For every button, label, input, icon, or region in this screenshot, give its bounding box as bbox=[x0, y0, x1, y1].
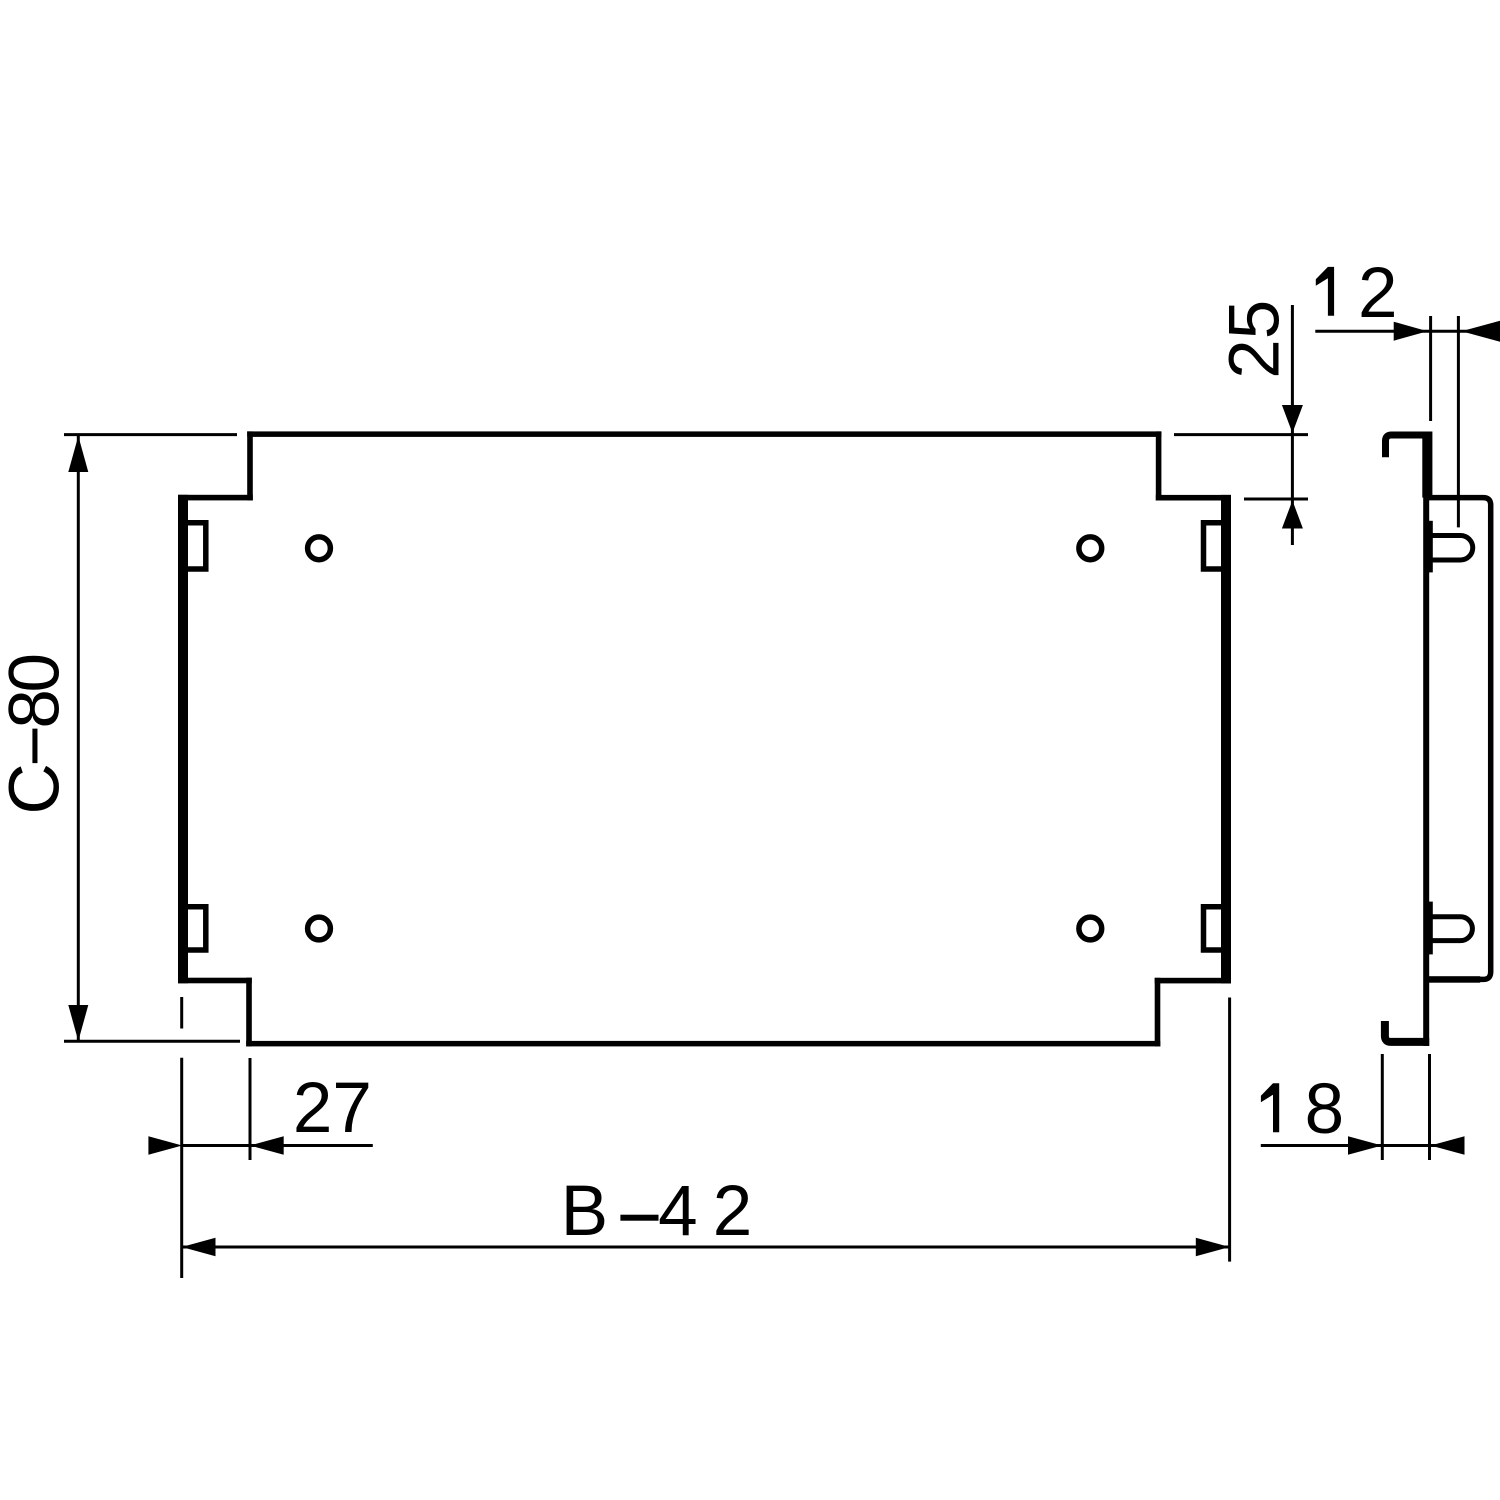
dim 12 label 1 bbox=[1316, 267, 1334, 316]
dim C-80 label bbox=[0, 655, 74, 814]
plate top-right step horizontal bbox=[1156, 495, 1231, 501]
dim C-80 top extension line bbox=[64, 433, 237, 436]
hole top-left bbox=[308, 537, 331, 560]
svg-text:8: 8 bbox=[1305, 1070, 1345, 1149]
dim 27 right extension line bbox=[249, 1058, 252, 1160]
plate top-left step vertical bbox=[247, 431, 253, 500]
svg-text:2: 2 bbox=[1358, 254, 1398, 333]
side view lower clip bump bbox=[1426, 902, 1433, 955]
dim 25 bottom extension line bbox=[1244, 498, 1308, 501]
plate right edge bbox=[1221, 495, 1231, 984]
dim 25 dimension line bbox=[1291, 305, 1294, 545]
dim 27 dimension line bbox=[182, 1144, 373, 1147]
plate top-left step horizontal bbox=[178, 495, 253, 501]
hole bottom-left bbox=[308, 917, 331, 940]
dim B-42 dimension line bbox=[182, 1246, 1230, 1249]
svg-text:25: 25 bbox=[1216, 300, 1295, 379]
dim B-42 arrow left bbox=[182, 1238, 216, 1256]
svg-text:2: 2 bbox=[713, 1172, 753, 1251]
dim C-80 arrow down bbox=[68, 1005, 88, 1041]
dim 18 label 1 bbox=[1261, 1083, 1279, 1132]
dim 18 arrow left bbox=[1431, 1136, 1465, 1154]
hole top-right bbox=[1079, 537, 1102, 560]
left upper tab bbox=[188, 523, 206, 569]
side view upper spring clip bbox=[1431, 536, 1473, 561]
plate bottom-left step horizontal bbox=[178, 978, 252, 984]
dim C-80 bottom extension line bbox=[64, 1040, 240, 1043]
dim 12 arrow left bbox=[1462, 321, 1500, 342]
side view bottom hook bbox=[1385, 1021, 1429, 1042]
right upper tab bbox=[1204, 523, 1222, 569]
plate left edge bbox=[178, 495, 188, 984]
side view upper clip bump bbox=[1426, 521, 1433, 573]
plate top-right step vertical bbox=[1156, 431, 1162, 500]
dim 27 / B-42 left extension line bbox=[180, 1058, 183, 1278]
plate top edge bbox=[247, 431, 1161, 437]
dim 27 arrow right bbox=[250, 1136, 284, 1154]
side view lower spring clip bbox=[1431, 917, 1472, 941]
dim C-80 arrow up bbox=[68, 436, 88, 472]
dim 25 arrow down bbox=[1282, 405, 1303, 433]
hole bottom-right bbox=[1079, 917, 1102, 940]
dim 12 arrow right bbox=[1394, 322, 1428, 341]
plate bottom edge bbox=[246, 1041, 1160, 1047]
svg-text:C−80: C−80 bbox=[0, 655, 74, 814]
left lower tab bbox=[188, 907, 206, 950]
dim 18 dimension line bbox=[1261, 1144, 1464, 1147]
plate bottom-right step horizontal bbox=[1155, 978, 1231, 984]
right lower tab bbox=[1204, 907, 1222, 950]
side view DIN rail bottom flange line bbox=[1426, 976, 1480, 983]
dim 12 right extension line bbox=[1457, 316, 1460, 527]
side view plate upper thick segment bbox=[1422, 432, 1432, 498]
svg-text:4: 4 bbox=[658, 1172, 698, 1251]
side view plate main line bbox=[1423, 432, 1429, 1046]
dim 25 top extension line bbox=[1174, 433, 1308, 436]
dim 12 dimension line bbox=[1315, 330, 1500, 333]
svg-text:27: 27 bbox=[293, 1069, 372, 1148]
dim 12 left extension line bbox=[1429, 316, 1432, 421]
dim 27 left extension dash bbox=[180, 997, 183, 1029]
dim 25 arrow up bbox=[1282, 501, 1303, 529]
dim 27 arrow left bbox=[148, 1136, 182, 1154]
plate bottom-left step vertical bbox=[246, 978, 252, 1047]
dim B-42 label dash bbox=[620, 1215, 658, 1221]
dim 18 left extension line bbox=[1381, 1054, 1384, 1160]
plate bottom-right step vertical bbox=[1155, 978, 1161, 1047]
dim 18 right extension line bbox=[1428, 1054, 1431, 1160]
svg-text:B: B bbox=[561, 1172, 608, 1251]
dim 18 arrow right bbox=[1348, 1136, 1382, 1154]
dim B-42 right extension line bbox=[1228, 998, 1231, 1262]
side view DIN rail profile bbox=[1426, 498, 1491, 980]
dim C-80 dimension line bbox=[77, 436, 80, 1041]
side view top hook bbox=[1386, 435, 1433, 457]
dim 25 label bbox=[1216, 300, 1295, 379]
dim B-42 arrow right bbox=[1196, 1238, 1230, 1256]
